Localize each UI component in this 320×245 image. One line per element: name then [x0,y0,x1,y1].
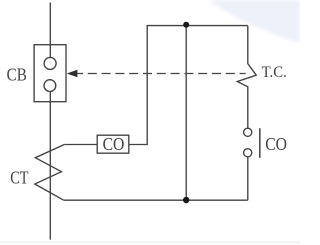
svg-text:T.C.: T.C. [262,64,287,81]
svg-text:CB: CB [7,64,27,84]
svg-text:CO: CO [103,134,125,154]
svg-text:CT: CT [10,167,29,187]
svg-text:CO: CO [265,134,287,154]
